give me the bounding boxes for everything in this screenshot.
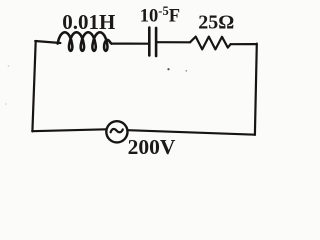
wire: left vertical bbox=[32, 41, 35, 131]
scan speckle bbox=[167, 68, 169, 70]
svg-text:200V: 200V bbox=[128, 135, 176, 159]
capacitor C right plate bbox=[155, 28, 158, 56]
wire: bottom left segment bbox=[32, 129, 106, 131]
wire: bottom right segment bbox=[128, 130, 255, 135]
wire: capacitor to resistor bbox=[157, 41, 190, 43]
scan speckle bbox=[185, 70, 187, 72]
AC source V1 circle bbox=[106, 121, 127, 142]
scan speckle bbox=[8, 65, 10, 67]
wire: right vertical bbox=[255, 44, 257, 135]
scan speckle bbox=[5, 103, 7, 105]
resistor R (25 ohm zigzag) bbox=[190, 37, 231, 50]
svg-text:10-5F: 10-5F bbox=[140, 4, 180, 27]
wire: top-left lead to inductor bbox=[35, 41, 60, 43]
svg-text:25Ω: 25Ω bbox=[198, 12, 234, 34]
wire: resistor to top-right corner bbox=[231, 43, 257, 45]
AC source sine symbol bbox=[111, 129, 123, 132]
inductor L (0.01H coil) bbox=[58, 32, 112, 51]
wire: inductor to capacitor bbox=[112, 42, 149, 44]
capacitor C left plate bbox=[148, 28, 151, 56]
svg-text:0.01H: 0.01H bbox=[62, 10, 115, 34]
